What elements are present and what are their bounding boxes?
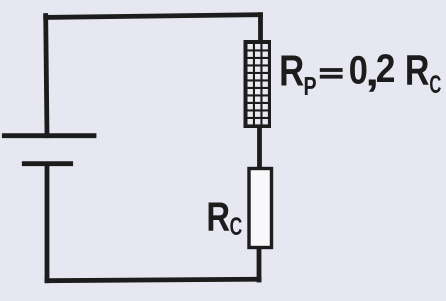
svg-text:R: R [279, 47, 304, 96]
svg-text:R: R [206, 193, 230, 239]
svg-text:C: C [230, 213, 243, 241]
svg-text:P: P [304, 71, 317, 100]
svg-text:2: 2 [376, 47, 396, 91]
svg-text:R: R [405, 47, 430, 94]
svg-text:C: C [429, 72, 441, 99]
